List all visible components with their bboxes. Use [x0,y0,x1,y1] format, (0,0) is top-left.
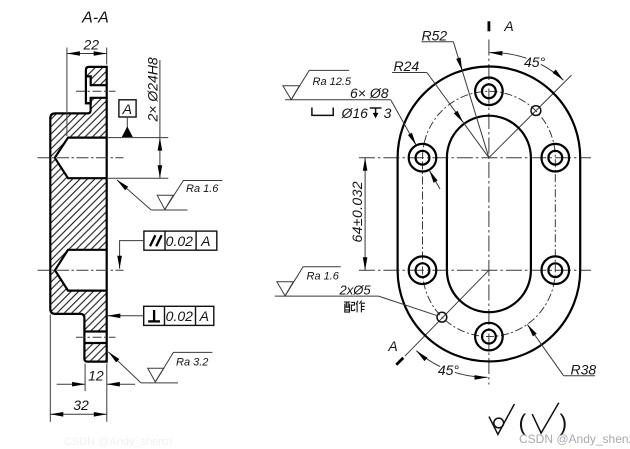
O5 hole section [84,332,106,344]
surface finish Ra 1.6 (section view) [115,178,222,210]
radius leader R52 [421,27,489,157]
svg-text:A: A [387,338,397,354]
svg-text:A: A [199,308,209,324]
inner obround bore R24 [447,116,531,313]
callout 2xO5 match-drilled [339,282,438,315]
bore O24 lower [55,250,107,291]
svg-text:Ra 1.6: Ra 1.6 [307,271,340,283]
hole callout 6x O8 / O16 depth 3 [312,85,440,189]
svg-text:A: A [503,18,513,34]
bolt hole lower-right [542,256,570,284]
svg-text:Ra 1.6: Ra 1.6 [186,183,219,195]
counterbored hole 6xO8 section [86,76,107,103]
svg-text:CSDN @Andy_shenzl: CSDN @Andy_shenzl [519,432,630,446]
radius leader R38 [525,323,596,377]
svg-text:45°: 45° [438,362,460,378]
horizontal centerline lower [359,269,591,271]
horizontal centerline upper [359,157,591,159]
dimension 12 [57,364,135,422]
svg-text:Ra 12.5: Ra 12.5 [313,76,352,88]
outer stadium profile R52 [398,66,581,361]
svg-text:Ra 3.2: Ra 3.2 [176,357,208,369]
flange section body (hatched) [50,67,106,362]
centerline top O8 hole [76,90,116,92]
svg-text:64±0.032: 64±0.032 [349,181,365,243]
svg-text:CSDN @Andy_shenzl: CSDN @Andy_shenzl [64,436,172,448]
svg-text:A: A [122,101,132,117]
svg-text:R38: R38 [571,361,597,377]
dimension 22 [67,37,107,137]
centerline upper bore [38,157,124,159]
surface finish Ra 3.2 [107,350,213,383]
svg-text:6× Ø8: 6× Ø8 [350,85,389,101]
radius leader R24 [392,58,489,158]
svg-text:0.02: 0.02 [166,233,193,249]
svg-text:A: A [200,233,210,249]
45 deg centerline lower-left [405,270,489,356]
dimension 64 +/-0.032 [349,158,367,271]
angle dimension 45 bottom [415,349,488,380]
small hole O5 lower-left [437,312,447,322]
section mark A bottom [387,338,403,365]
vertical centerline [488,40,490,385]
bolt hole upper-right [542,144,570,172]
bolt hole top (O8 cb O16) [475,78,503,106]
bolt-hole pitch path R38 [423,91,556,336]
dimension 32 [50,315,107,422]
angle dimension 45 top [489,50,565,82]
svg-text:0.02: 0.02 [166,308,193,324]
svg-text:R24: R24 [394,58,420,74]
datum A symbol [119,100,136,137]
perpendicularity frame |_ 0.02 A [107,306,213,325]
dimension 2x O24H8 [107,57,169,178]
svg-text:32: 32 [73,397,89,413]
svg-text:3: 3 [384,105,392,121]
svg-text:22: 22 [83,37,100,53]
svg-text:2xØ5: 2xØ5 [339,282,372,297]
section mark A top [489,18,514,34]
other-surfaces roughness marks [489,403,567,436]
svg-text:12: 12 [88,367,104,383]
small hole O5 upper-right [531,106,541,116]
surface finish Ra 1.6 with 2xO5 callout [275,267,379,296]
svg-text:45°: 45° [524,54,546,70]
chinese label PEI ZUO (match drill) [344,301,365,313]
svg-text:2× Ø24H8: 2× Ø24H8 [145,57,161,122]
bolt hole upper-left [409,144,437,172]
centerline lower bore [38,269,124,271]
surface finish Ra 12.5 with counterbored hole callout [283,70,391,99]
bolt hole lower-left [409,256,437,284]
45 deg centerline upper-right [489,75,572,158]
centerline O5 hole [76,336,116,338]
svg-text:Ø16: Ø16 [341,105,369,121]
svg-text:R52: R52 [422,27,448,43]
svg-text:A-A: A-A [81,9,109,26]
flange outline [50,67,106,362]
bore O24 upper [55,138,107,179]
bolt hole bottom [475,323,503,351]
parallelism frame // 0.02 A [117,231,216,269]
